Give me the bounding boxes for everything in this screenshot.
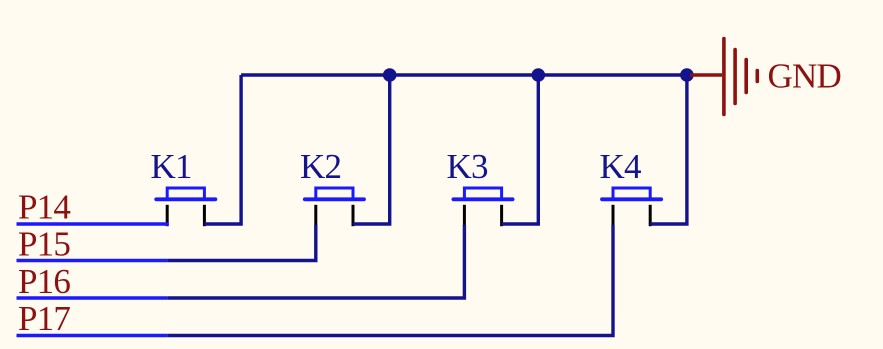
wire P16 to K3.1 [167,225,464,298]
push button K1 body [156,188,215,200]
ground [690,39,757,115]
pin K4.2 [649,205,652,226]
net label P14 [18,187,70,226]
wire vertical drop to K4.2 [650,75,687,224]
net label P16 [18,262,70,301]
wire P14 to K1.1 [17,222,169,225]
wire P17 to K4.1 [167,225,613,336]
push button K2 body [305,188,364,200]
wire P16 stub [17,296,168,299]
svg-text:K1: K1 [151,147,192,186]
wire top rail GND net [241,73,687,76]
svg-text:P15: P15 [18,225,70,264]
junction node above K2 [383,68,397,82]
wire P17 stub [17,334,168,337]
pin K2.1 [314,205,317,226]
pin K3.2 [500,205,503,226]
svg-text:K4: K4 [600,147,641,186]
pin K2.2 [352,205,355,226]
junction node above K3 [532,68,546,82]
push button K4 body [602,188,661,200]
svg-text:K2: K2 [300,147,341,186]
pin K4.1 [612,205,615,226]
svg-text:GND: GND [768,56,841,95]
net label P15 [18,225,70,264]
designator K4 [600,147,641,186]
wire vertical drop to K3.2 [502,75,539,224]
pin K1.2 [203,205,206,226]
designator K3 [447,147,488,186]
svg-text:P16: P16 [18,262,70,301]
pin K3.1 [463,205,466,226]
label GND [768,56,841,95]
junction node at GND [680,68,694,82]
pin K1.1 [166,205,169,226]
svg-text:P14: P14 [18,187,70,226]
svg-text:K3: K3 [447,147,488,186]
wire P15 to K2.1 [167,225,316,261]
designator K1 [151,147,192,186]
wire P15 stub [17,259,168,262]
wire vertical drop to K1.2 [204,75,241,224]
svg-text:P17: P17 [18,299,70,338]
designator K2 [300,147,341,186]
push button K3 body [453,188,512,200]
wire vertical drop to K2.2 [353,75,390,224]
net label P17 [18,299,70,338]
